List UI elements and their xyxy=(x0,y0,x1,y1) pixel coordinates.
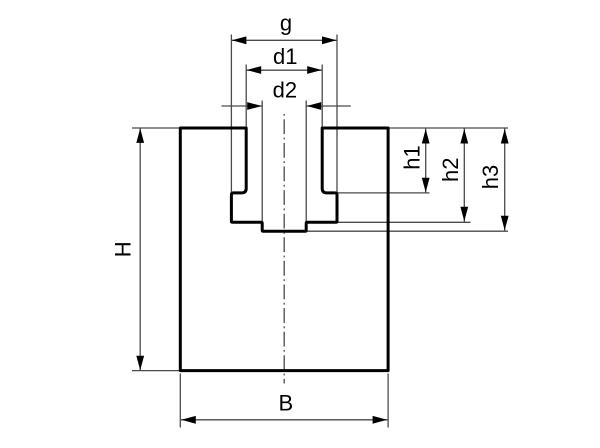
svg-text:h1: h1 xyxy=(400,145,425,169)
wire: h2 dimension line xyxy=(460,129,468,222)
wire: H bottom extension line xyxy=(132,370,180,372)
svg-text:d2: d2 xyxy=(273,77,297,102)
wire: h1 dimension line xyxy=(422,129,430,193)
wire: B dimension line xyxy=(181,416,388,424)
wire: g right extension line xyxy=(336,35,338,193)
wire: h1 step extension line xyxy=(337,192,430,194)
wire: d1 dimension line xyxy=(246,66,322,74)
svg-text:g: g xyxy=(280,11,292,36)
wire: d2 dimension line xyxy=(222,102,351,110)
wire: B right extension line xyxy=(387,374,389,428)
wire: B left extension line xyxy=(179,374,181,428)
wire: g left extension line xyxy=(230,35,232,193)
svg-text:H: H xyxy=(111,241,136,257)
svg-text:h3: h3 xyxy=(478,165,503,189)
wire: H top extension line xyxy=(132,127,180,129)
wire: d1 right extension line xyxy=(321,65,323,128)
wire: top-right extension line xyxy=(388,127,508,129)
block body outline with T-slot profile xyxy=(180,128,388,371)
wire: d2 left extension line xyxy=(261,101,263,223)
wire: H dimension line xyxy=(136,128,144,370)
wire: d2 right extension line xyxy=(305,101,307,223)
wire: h2 undercut floor extension line xyxy=(337,221,471,223)
node: vertical centerline xyxy=(283,114,285,384)
svg-text:d1: d1 xyxy=(273,44,297,69)
wire: d1 left extension line xyxy=(245,65,247,128)
svg-text:B: B xyxy=(278,391,293,416)
wire: h3 dimension line xyxy=(501,129,509,231)
svg-text:h2: h2 xyxy=(438,157,463,181)
wire: g dimension line xyxy=(231,36,337,44)
wire: h3 deep floor extension line xyxy=(306,230,508,232)
